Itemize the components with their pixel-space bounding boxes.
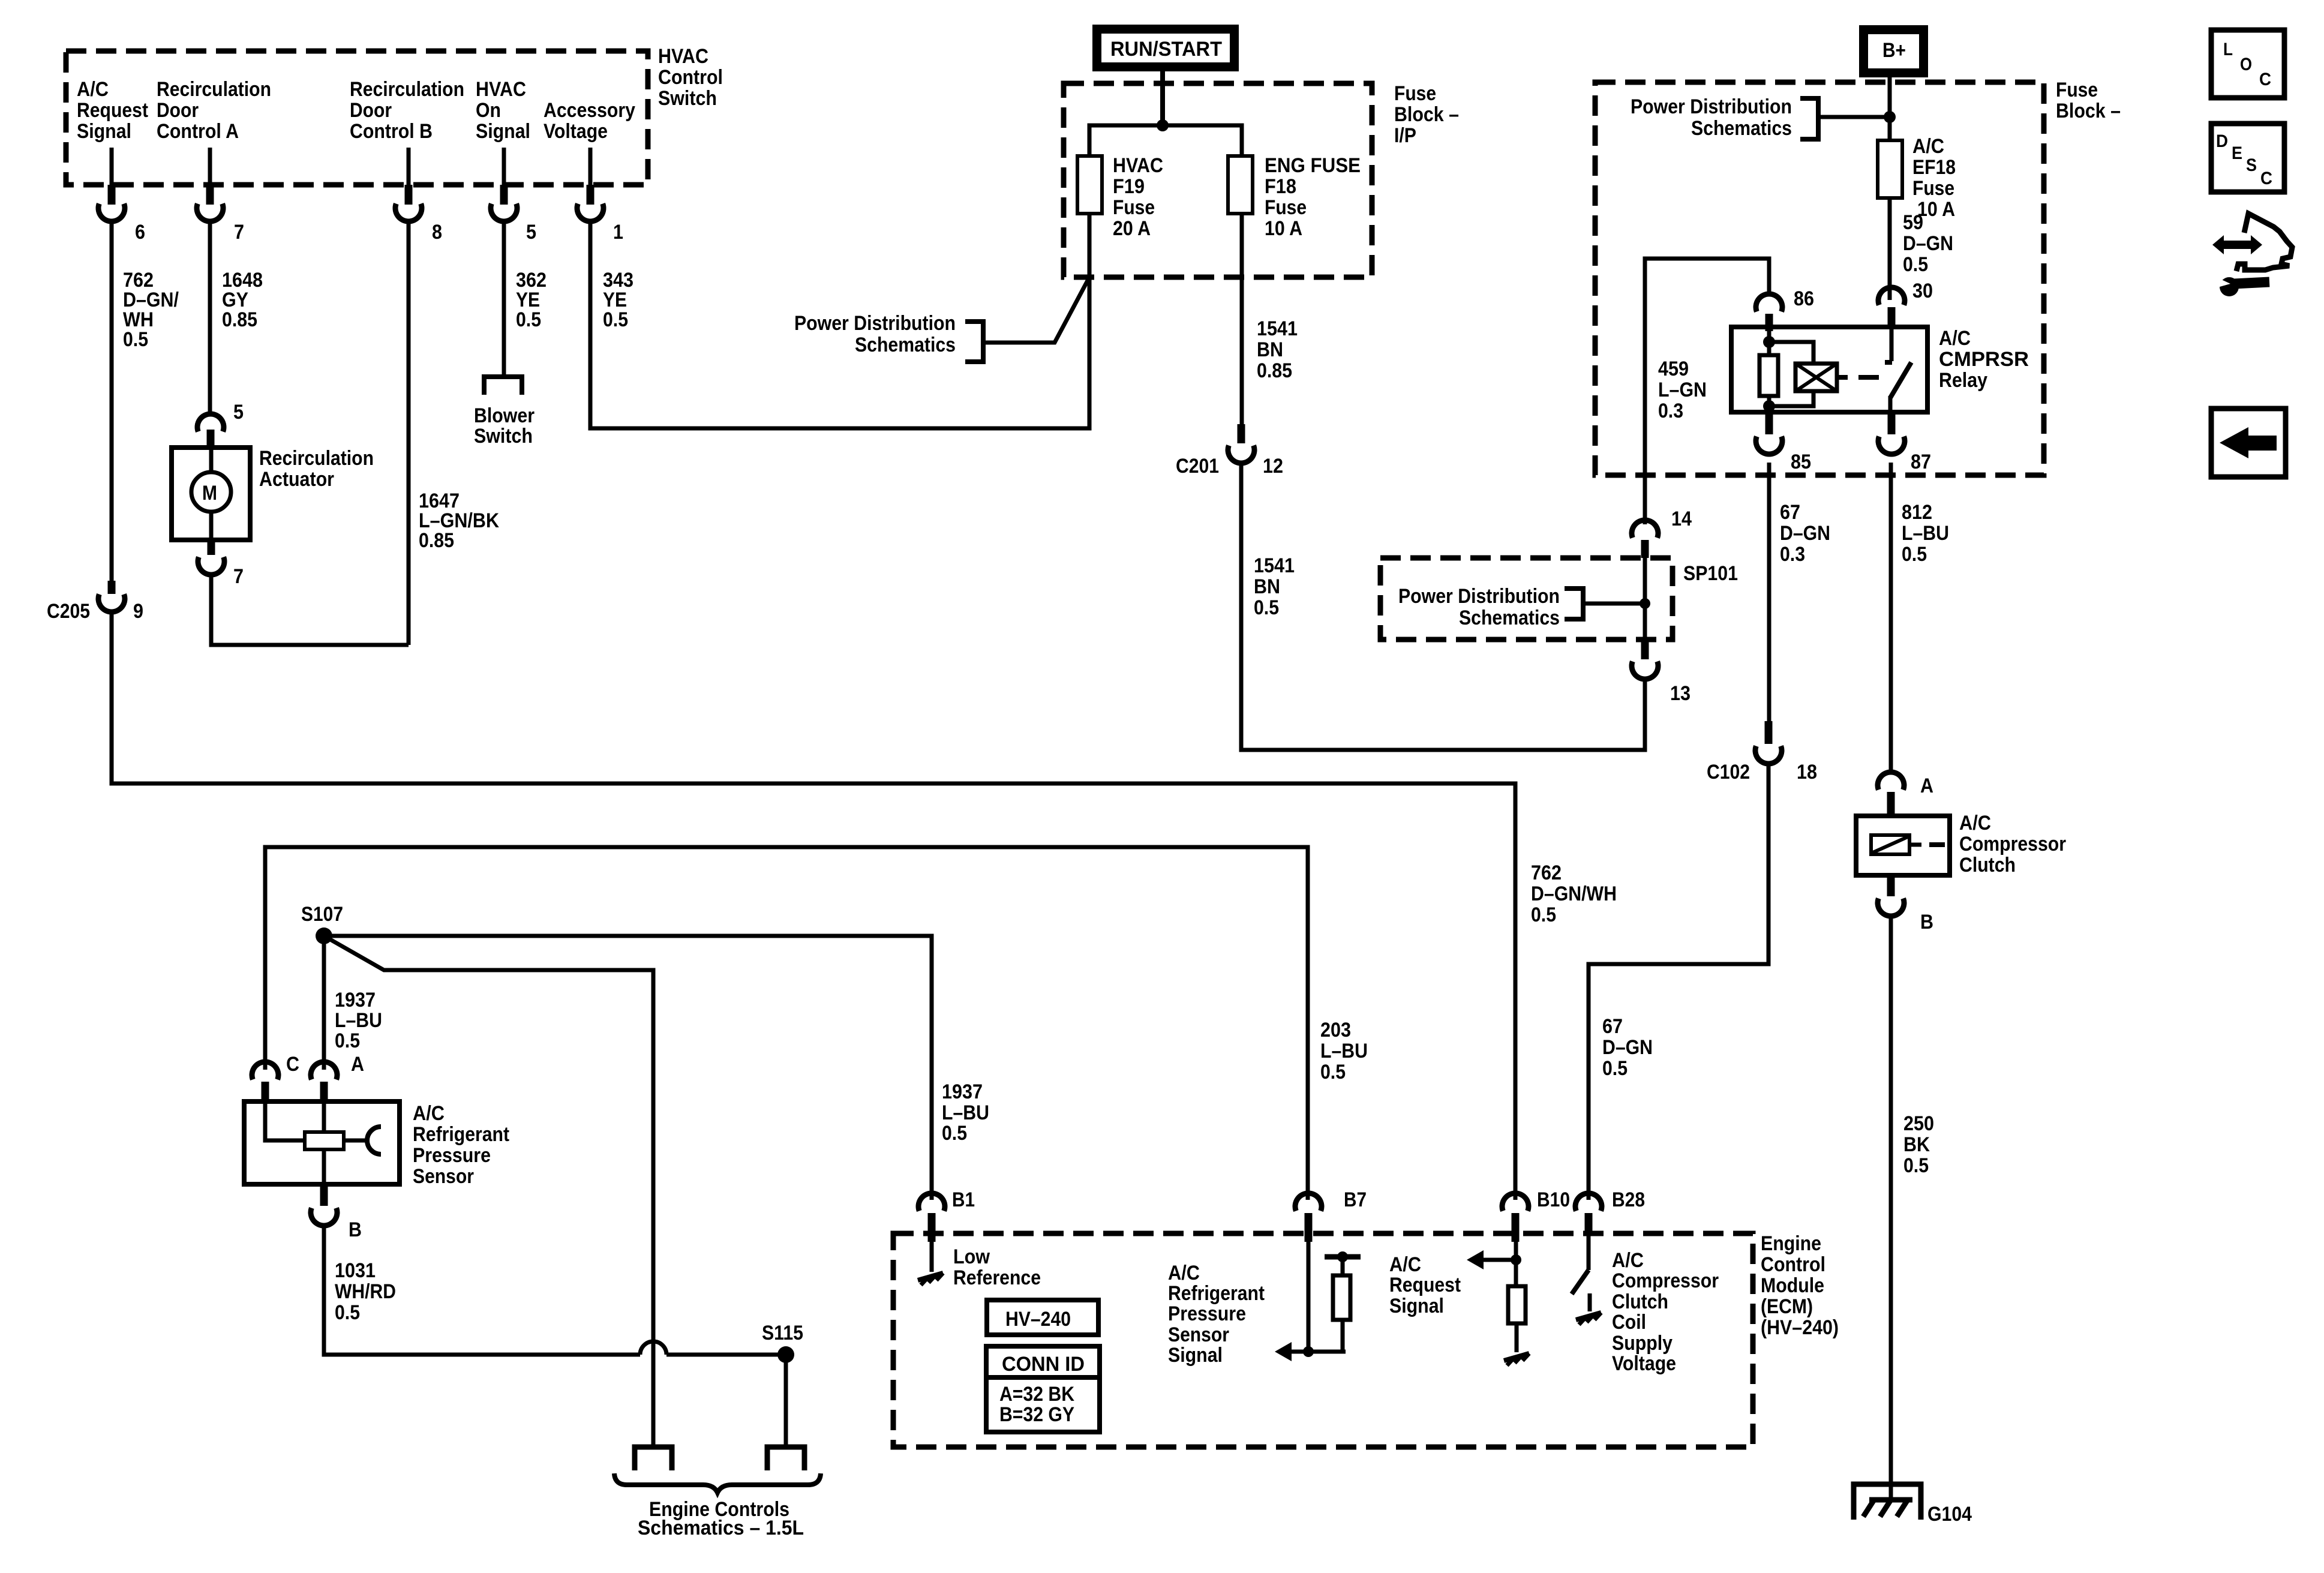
fuse F18 — [1228, 154, 1361, 240]
wire 59 D-GN — [1888, 198, 1892, 300]
sensor connector B — [311, 1184, 362, 1241]
svg-text:Refrigerant: Refrigerant — [1168, 1282, 1265, 1305]
svg-text:A=32 BK: A=32 BK — [999, 1383, 1074, 1406]
svg-text:HVAC: HVAC — [476, 78, 526, 101]
svg-text:D–GN/WH: D–GN/WH — [1531, 882, 1617, 905]
svg-text:13: 13 — [1670, 682, 1691, 705]
svg-text:Clutch: Clutch — [1612, 1290, 1668, 1313]
svg-text:Control: Control — [658, 66, 723, 89]
svg-text:Compressor: Compressor — [1959, 833, 2066, 855]
blower switch bracket — [474, 377, 535, 448]
relay pin 86 connector — [1756, 287, 1814, 331]
svg-text:Sensor: Sensor — [1168, 1323, 1229, 1346]
svg-text:C201: C201 — [1176, 455, 1219, 478]
ECM B10 internal request input — [1389, 1242, 1529, 1365]
wire 762 run to B10 — [112, 612, 1515, 1200]
svg-text:B7: B7 — [1344, 1188, 1367, 1211]
HVAC Control Switch box — [66, 45, 723, 185]
ECM pin B7 connector — [1295, 1188, 1367, 1242]
svg-text:A/C: A/C — [1389, 1253, 1421, 1276]
relay coil and resistor internals — [1759, 327, 1879, 412]
svg-text:Fuse: Fuse — [1394, 82, 1436, 105]
svg-text:Engine: Engine — [1761, 1232, 1821, 1255]
svg-text:0.5: 0.5 — [516, 308, 541, 331]
svg-text:C102: C102 — [1707, 761, 1750, 784]
svg-text:B=32 GY: B=32 GY — [999, 1403, 1074, 1426]
svg-text:8: 8 — [432, 221, 442, 244]
svg-text:C: C — [2260, 169, 2272, 188]
svg-text:WH/RD: WH/RD — [335, 1280, 396, 1303]
svg-text:Voltage: Voltage — [544, 120, 608, 143]
svg-text:Control A: Control A — [157, 120, 239, 143]
ground G104 — [1854, 1484, 1972, 1526]
ECM pin B28 connector — [1575, 1188, 1645, 1236]
wire 1647 L-GN/BK vertical — [407, 221, 411, 645]
wire 67 D-GN 0.3 relay 85 to C102 — [1767, 463, 1771, 721]
connector C102 pin 18 — [1707, 721, 1817, 784]
relay pin 87 connector — [1878, 413, 1931, 473]
svg-text:A/C: A/C — [1959, 812, 1991, 834]
wire F19 to pin1 junction — [1088, 214, 1092, 428]
svg-text:C: C — [286, 1053, 299, 1076]
wire 343 YE to fuse F19 — [590, 221, 1089, 428]
svg-text:9: 9 — [133, 600, 143, 623]
pin 1 connector — [577, 148, 623, 244]
svg-text:A/C: A/C — [1912, 135, 1944, 158]
svg-text:0.5: 0.5 — [1902, 543, 1927, 566]
icon LOC box — [2211, 30, 2284, 98]
svg-text:59: 59 — [1903, 211, 1923, 234]
wire 1031 WH/RD to S115 — [324, 1226, 786, 1355]
svg-text:Pressure: Pressure — [413, 1144, 491, 1167]
svg-text:BN: BN — [1257, 338, 1283, 361]
pin 8 connector — [395, 148, 442, 244]
sensor B1 A/C refrigerant pressure sensor — [244, 1101, 509, 1188]
svg-text:203: 203 — [1320, 1019, 1351, 1041]
svg-text:A/C: A/C — [1939, 327, 1971, 350]
svg-text:Sensor: Sensor — [413, 1165, 474, 1188]
connector C201 pin 12 — [1176, 424, 1283, 478]
svg-text:Control: Control — [1761, 1253, 1825, 1276]
svg-text:EF18: EF18 — [1912, 156, 1956, 179]
svg-text:Schematics – 1.5L: Schematics – 1.5L — [638, 1517, 804, 1539]
svg-text:L–BU: L–BU — [335, 1009, 382, 1032]
svg-text:Signal: Signal — [476, 120, 530, 143]
svg-text:Request: Request — [77, 99, 148, 122]
svg-text:F18: F18 — [1265, 175, 1296, 198]
svg-text:762: 762 — [1531, 861, 1562, 884]
svg-text:B1: B1 — [952, 1188, 975, 1211]
svg-text:1031: 1031 — [335, 1259, 376, 1282]
wire SP101 internal — [1643, 558, 1647, 640]
svg-text:Actuator: Actuator — [259, 468, 334, 491]
icon DESC box — [2211, 124, 2284, 192]
wire 67 D-GN 0.5 to B28 — [1589, 764, 1768, 1200]
svg-text:G104: G104 — [1927, 1503, 1972, 1526]
svg-text:0.5: 0.5 — [1254, 596, 1279, 619]
svg-text:B28: B28 — [1612, 1188, 1645, 1211]
svg-text:Accessory: Accessory — [544, 99, 635, 122]
wire 1541 BN 0.5 to SP101 — [1241, 463, 1645, 750]
svg-text:B+: B+ — [1882, 39, 1906, 62]
wire 1648 GY — [208, 221, 212, 414]
svg-text:L–BU: L–BU — [1902, 522, 1949, 545]
svg-text:0.85: 0.85 — [222, 308, 257, 331]
svg-text:RUN/START: RUN/START — [1110, 38, 1222, 61]
svg-text:F19: F19 — [1113, 175, 1145, 198]
HV-240 reference box — [987, 1300, 1098, 1335]
brace engine controls — [614, 1473, 821, 1539]
svg-text:L–GN: L–GN — [1658, 379, 1707, 401]
svg-text:14: 14 — [1671, 508, 1692, 530]
Fuse Block I/P dashed box — [1064, 82, 1459, 277]
svg-text:87: 87 — [1911, 451, 1931, 473]
svg-text:HVAC: HVAC — [658, 45, 708, 68]
svg-text:Module: Module — [1761, 1274, 1824, 1297]
svg-text:CMPRSR: CMPRSR — [1939, 348, 2029, 371]
svg-text:0.5: 0.5 — [123, 328, 148, 351]
svg-text:Recirculation: Recirculation — [157, 78, 271, 101]
svg-text:250: 250 — [1903, 1112, 1934, 1135]
svg-text:HV–240: HV–240 — [1005, 1308, 1071, 1331]
svg-text:1937: 1937 — [942, 1080, 983, 1103]
svg-text:Door: Door — [157, 99, 199, 122]
compressor clutch connector B — [1878, 875, 1933, 933]
svg-text:10 A: 10 A — [1265, 217, 1302, 240]
relay pin 30 connector — [1878, 287, 1905, 327]
ECM B1 low reference ground — [918, 1242, 1041, 1289]
svg-text:5: 5 — [233, 401, 244, 424]
recirculation actuator M1 — [172, 401, 374, 588]
svg-text:Signal: Signal — [1168, 1344, 1223, 1367]
svg-text:Door: Door — [350, 99, 392, 122]
svg-text:12: 12 — [1263, 455, 1283, 478]
svg-text:7: 7 — [234, 221, 244, 244]
power distribution bracket 3 — [1631, 95, 1890, 140]
svg-text:O: O — [2240, 55, 2252, 74]
svg-text:B: B — [1920, 911, 1933, 933]
RUN/START block — [1097, 29, 1235, 67]
svg-text:Signal: Signal — [77, 120, 131, 143]
compressor clutch connector A — [1878, 772, 1933, 816]
svg-text:1541: 1541 — [1257, 317, 1298, 340]
svg-text:Fuse: Fuse — [2056, 79, 2098, 101]
svg-text:I/P: I/P — [1394, 124, 1416, 147]
svg-text:0.5: 0.5 — [335, 1029, 360, 1052]
svg-text:HVAC: HVAC — [1113, 154, 1163, 177]
svg-text:B10: B10 — [1537, 1188, 1570, 1211]
svg-text:Supply: Supply — [1612, 1332, 1673, 1355]
svg-text:M: M — [202, 482, 217, 505]
svg-text:Control B: Control B — [350, 120, 433, 143]
ground left staple — [635, 1447, 672, 1470]
relay pin 85 connector — [1756, 413, 1811, 473]
splice S115 — [762, 1322, 803, 1363]
svg-text:On: On — [476, 99, 501, 122]
wire S115 to ground — [784, 1355, 788, 1447]
ECM dashed box — [893, 1232, 1839, 1447]
wire S107 diagonal to ground run — [324, 936, 653, 1447]
svg-text:0.5: 0.5 — [603, 308, 628, 331]
svg-text:812: 812 — [1902, 501, 1932, 524]
power distribution bracket 2 — [1398, 585, 1650, 629]
svg-text:BK: BK — [1903, 1133, 1930, 1156]
pin 5 connector — [491, 148, 536, 244]
sensor connector A — [311, 1053, 364, 1101]
svg-text:Switch: Switch — [658, 87, 717, 110]
svg-text:A/C: A/C — [1168, 1262, 1200, 1284]
svg-text:Pressure: Pressure — [1168, 1302, 1246, 1325]
pin 7 connector — [197, 148, 244, 244]
splice SP101 dashed box — [1380, 558, 1738, 640]
ECM pin B1 connector — [918, 1188, 975, 1242]
svg-text:CONN ID: CONN ID — [1002, 1353, 1085, 1376]
svg-text:L–BU: L–BU — [942, 1101, 989, 1124]
wire 459 L-GN relay 86 to 14 — [1645, 259, 1769, 524]
svg-text:86: 86 — [1794, 287, 1814, 310]
svg-text:D–GN: D–GN — [1903, 232, 1953, 255]
node B+ junction — [1884, 111, 1896, 123]
svg-text:E: E — [2232, 143, 2242, 163]
connector C205 — [47, 581, 143, 623]
A/C compressor clutch L1 — [1856, 812, 2066, 876]
fuse F19 — [1077, 154, 1163, 240]
svg-text:Power Distribution: Power Distribution — [1631, 95, 1792, 118]
relay U1 A/C CMPRSR box — [1731, 327, 2029, 412]
svg-text:Fuse: Fuse — [1113, 196, 1155, 219]
node bus junction — [1157, 119, 1169, 131]
svg-text:Fuse: Fuse — [1912, 177, 1954, 200]
svg-text:Power Distribution: Power Distribution — [794, 312, 956, 335]
svg-text:A: A — [1920, 775, 1933, 797]
svg-text:Blower: Blower — [474, 404, 535, 427]
fuse A/C EF18 — [1878, 135, 1956, 221]
svg-text:1541: 1541 — [1254, 554, 1295, 577]
svg-text:1937: 1937 — [335, 989, 376, 1011]
svg-text:D: D — [2216, 131, 2228, 151]
wire B+ down — [1888, 72, 1892, 140]
icon diagnostic car with arrow and wrench — [2211, 214, 2292, 296]
svg-text:Block –: Block – — [1394, 103, 1459, 126]
svg-text:Compressor: Compressor — [1612, 1269, 1719, 1292]
svg-text:S115: S115 — [762, 1322, 803, 1344]
svg-text:67: 67 — [1780, 501, 1800, 524]
svg-text:Schematics: Schematics — [855, 334, 956, 356]
pin 6 connector — [98, 148, 145, 244]
wire diagonal to PD bracket — [983, 277, 1089, 343]
svg-text:20 A: 20 A — [1113, 217, 1151, 240]
CONN ID table — [986, 1346, 1100, 1432]
svg-text:SP101: SP101 — [1683, 562, 1738, 585]
svg-text:7: 7 — [233, 565, 244, 588]
wire 250 BK to G104 — [1889, 916, 1893, 1500]
svg-text:85: 85 — [1791, 451, 1811, 473]
wire sensor C to B7 run — [265, 847, 1308, 1200]
svg-text:Schematics: Schematics — [1459, 607, 1560, 629]
svg-text:Low: Low — [953, 1245, 990, 1268]
svg-text:Relay: Relay — [1939, 369, 1987, 392]
svg-text:L: L — [2223, 40, 2233, 59]
Fuse Block right dashed box — [1595, 79, 2121, 475]
sensor connector C — [252, 1053, 299, 1101]
svg-text:B: B — [349, 1218, 362, 1241]
svg-text:30: 30 — [1912, 280, 1933, 302]
wire 762 D-GN/WH upper — [110, 221, 114, 582]
svg-text:(HV–240): (HV–240) — [1761, 1316, 1839, 1339]
svg-text:0.5: 0.5 — [1602, 1057, 1628, 1080]
wire actuator pin7 to control B — [211, 575, 409, 645]
icon back arrow box — [2211, 409, 2286, 477]
svg-text:0.85: 0.85 — [419, 529, 454, 552]
svg-text:Coil: Coil — [1612, 1311, 1646, 1334]
svg-text:459: 459 — [1658, 358, 1689, 380]
wire 1541 BN 0.85 — [1240, 214, 1244, 424]
svg-text:A: A — [351, 1053, 364, 1076]
connector 13 — [1632, 640, 1691, 705]
svg-text:Fuse: Fuse — [1265, 196, 1307, 219]
svg-text:Power Distribution: Power Distribution — [1398, 585, 1560, 608]
svg-text:Clutch: Clutch — [1959, 854, 2016, 876]
svg-text:0.5: 0.5 — [1531, 903, 1556, 926]
connector 14 — [1632, 508, 1692, 558]
svg-text:0.5: 0.5 — [942, 1122, 967, 1145]
wire 1937 S107 to sensor A — [322, 936, 326, 1070]
relay switch internals — [1885, 327, 1911, 412]
wire S107 to B1 — [324, 936, 932, 1200]
svg-text:ENG FUSE: ENG FUSE — [1265, 154, 1361, 177]
svg-text:0.3: 0.3 — [1780, 543, 1805, 566]
svg-text:BN: BN — [1254, 575, 1280, 598]
svg-text:18: 18 — [1797, 761, 1817, 784]
svg-text:A/C: A/C — [77, 78, 109, 101]
svg-text:Refrigerant: Refrigerant — [413, 1123, 509, 1146]
ground right staple — [767, 1447, 804, 1470]
svg-text:S: S — [2246, 155, 2257, 175]
svg-text:A/C: A/C — [413, 1102, 445, 1125]
svg-text:0.5: 0.5 — [1903, 1154, 1929, 1177]
svg-text:6: 6 — [135, 221, 145, 244]
splice S107 — [301, 903, 343, 944]
power distribution bracket 1 — [794, 312, 983, 362]
B+ block — [1864, 30, 1924, 73]
svg-text:1: 1 — [613, 221, 623, 244]
svg-text:C: C — [2259, 70, 2271, 89]
ECM pin B10 connector — [1502, 1188, 1570, 1242]
svg-text:D–GN: D–GN — [1602, 1036, 1653, 1059]
svg-text:A/C: A/C — [1612, 1249, 1644, 1272]
wire RUN/START to fuse bus — [1160, 71, 1165, 125]
ECM B28 internal clutch driver switch — [1572, 1234, 1719, 1375]
wire 812 L-BU relay 87 down — [1889, 463, 1893, 771]
svg-text:67: 67 — [1602, 1015, 1623, 1038]
svg-text:Switch: Switch — [474, 425, 533, 448]
svg-text:0.3: 0.3 — [1658, 400, 1683, 422]
svg-text:Reference: Reference — [953, 1266, 1041, 1289]
svg-text:Schematics: Schematics — [1691, 117, 1792, 140]
svg-text:Request: Request — [1389, 1274, 1461, 1296]
svg-text:Recirculation: Recirculation — [350, 78, 464, 101]
svg-text:Block –: Block – — [2056, 100, 2121, 122]
svg-text:0.5: 0.5 — [335, 1301, 360, 1324]
svg-text:S107: S107 — [301, 903, 343, 926]
svg-text:Signal: Signal — [1389, 1295, 1444, 1317]
wire fuse bus — [1089, 125, 1242, 214]
svg-text:0.5: 0.5 — [1903, 253, 1928, 276]
wire 362 YE — [502, 221, 506, 375]
svg-text:0.5: 0.5 — [1320, 1061, 1346, 1083]
svg-text:D–GN: D–GN — [1780, 522, 1830, 545]
svg-text:0.85: 0.85 — [1257, 359, 1292, 382]
svg-text:(ECM): (ECM) — [1761, 1295, 1813, 1318]
ECM B7 internal sensor signal input — [1168, 1242, 1361, 1367]
svg-text:C205: C205 — [47, 600, 90, 623]
svg-text:5: 5 — [526, 221, 536, 244]
svg-text:L–BU: L–BU — [1320, 1040, 1368, 1062]
svg-text:Recirculation: Recirculation — [259, 447, 374, 470]
svg-text:Voltage: Voltage — [1612, 1352, 1676, 1375]
